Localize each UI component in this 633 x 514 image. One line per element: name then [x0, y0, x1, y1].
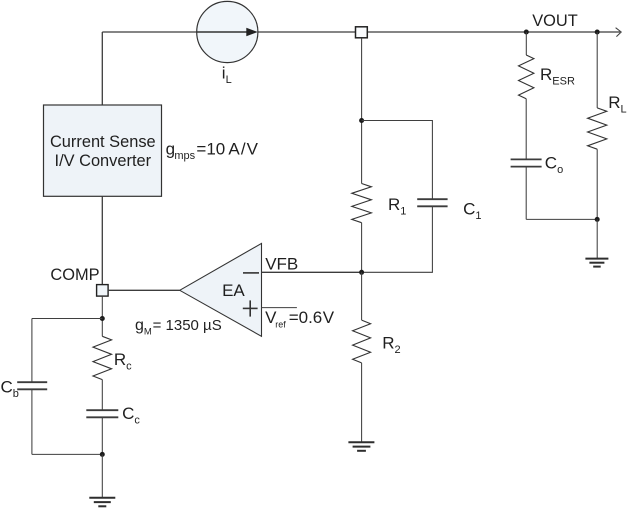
junction: VOUT/RESR: [524, 30, 529, 35]
resistor R1: [352, 184, 372, 223]
junction: C1 top: [359, 118, 364, 123]
capacitor Cb: [17, 382, 47, 389]
junction: bottom-right: [595, 217, 600, 222]
wire: RL top lead: [596, 32, 598, 108]
svg-text:I/V Converter: I/V Converter: [55, 152, 152, 170]
wire: converter to COMP node: [101, 196, 103, 284]
wire: COMP node down to Rc: [101, 296, 103, 336]
wire: to left ground: [101, 454, 103, 497]
wire: C1 top branch: [362, 121, 433, 200]
wire: Cb lower lead: [31, 389, 33, 454]
wire: bottom-left bar: [32, 453, 102, 455]
wire: C1 bottom branch: [362, 206, 433, 272]
op-amp EA: [180, 243, 262, 336]
wire: Co to bottom bar: [525, 167, 527, 220]
wire: RESR to Co: [525, 99, 527, 160]
ground (left): [89, 498, 115, 507]
node: COMP square: [97, 285, 109, 297]
resistor RL: [588, 108, 607, 149]
wire: COMP to op-amp input: [108, 289, 180, 291]
current source iL: [197, 1, 258, 62]
svg-text:COMP: COMP: [50, 266, 99, 284]
capacitor Cc: [86, 410, 118, 417]
wire: VFB feedback: [262, 271, 362, 273]
junction: bottom-left: [100, 452, 105, 457]
wire: Vref stub: [262, 307, 297, 309]
svg-text:VFB: VFB: [265, 255, 298, 274]
wire: to Cb branch: [32, 318, 102, 320]
svg-text:EA: EA: [222, 281, 245, 300]
wire: R1 to VFB junction: [361, 223, 363, 273]
wire: main top rail: [102, 31, 620, 33]
capacitor C1: [417, 199, 447, 206]
svg-text:Vref=0.6V: Vref=0.6V: [265, 308, 335, 330]
wire: bottom-right bar: [526, 218, 597, 220]
wire: rail down to converter: [101, 32, 103, 106]
ground (R2): [348, 442, 374, 451]
wire: Rc to Cc: [101, 380, 103, 411]
junction: COMP/Cb: [100, 316, 105, 321]
arrow: output rail arrowhead: [616, 28, 622, 37]
pin: non-inverting plus: [243, 300, 258, 316]
resistor R2: [353, 320, 371, 363]
capacitor Co: [511, 159, 542, 166]
wire: Cb upper lead: [31, 319, 33, 383]
node: square on rail (R1 tap): [356, 27, 368, 38]
svg-text:VOUT: VOUT: [532, 12, 578, 30]
resistor RESR: [519, 55, 534, 99]
wire: to right ground: [596, 219, 598, 258]
svg-text:Current Sense: Current Sense: [50, 133, 156, 151]
ground (right): [585, 259, 608, 267]
resistor Rc: [93, 336, 112, 379]
wire: RL bottom lead: [596, 149, 598, 219]
wire: R2 top lead: [361, 272, 363, 320]
wire: R2 to ground: [361, 363, 363, 442]
pin: inverting minus: [243, 272, 259, 274]
wire: RESR top lead: [525, 32, 527, 55]
block: current sense I/V converter: [44, 105, 162, 196]
junction: VFB/R1/R2: [359, 270, 364, 275]
wire: Cc to bottom junction: [101, 417, 103, 454]
wire: R1 branch from tap square: [361, 38, 363, 184]
junction: rail/RL: [595, 30, 600, 35]
